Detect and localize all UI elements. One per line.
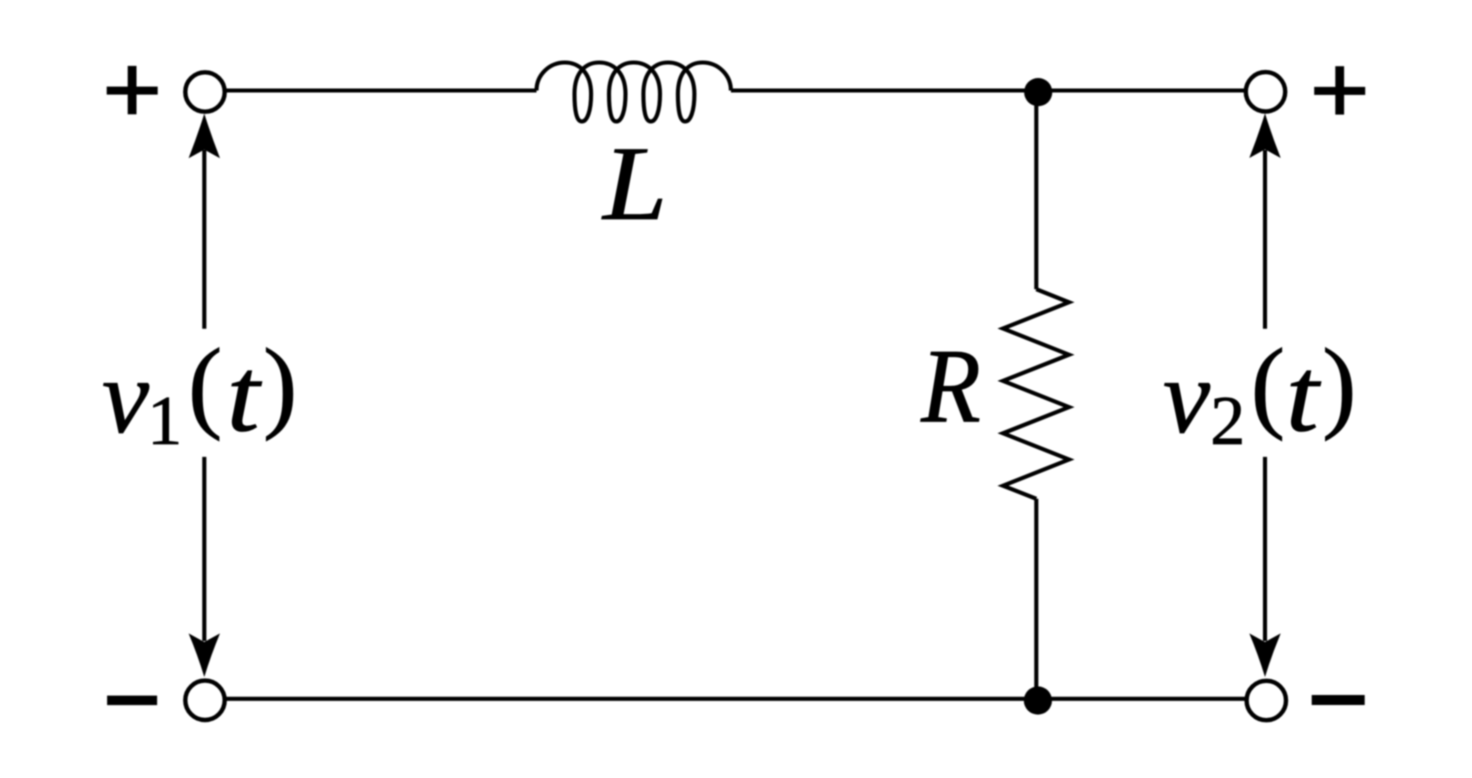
arrow v1 shaft lower bbox=[202, 457, 206, 641]
plus sign v1 bbox=[107, 66, 158, 114]
svg-text:): ) bbox=[1322, 328, 1356, 442]
arrow v2 head up bbox=[1249, 113, 1280, 158]
svg-text:v: v bbox=[1163, 338, 1211, 455]
minus sign v1 bbox=[107, 696, 157, 706]
arrow v1 head down bbox=[189, 633, 220, 677]
wire resistor bottom lead bbox=[1034, 499, 1038, 699]
node bottom junction bbox=[1024, 686, 1052, 714]
terminal bottom-left (port 1 -) bbox=[185, 681, 224, 720]
svg-text:): ) bbox=[263, 328, 297, 442]
svg-text:v: v bbox=[102, 338, 150, 455]
minus sign v2 bbox=[1312, 695, 1365, 705]
node top junction bbox=[1024, 78, 1052, 106]
svg-text:t: t bbox=[1286, 337, 1322, 454]
terminal top-right (port 2 +) bbox=[1246, 72, 1285, 111]
arrow v2 shaft upper bbox=[1263, 150, 1267, 329]
svg-text:1: 1 bbox=[147, 383, 182, 460]
svg-text:L: L bbox=[601, 125, 668, 242]
wire inductor to top junction bbox=[731, 88, 1244, 92]
wire top-left segment bbox=[226, 88, 537, 92]
svg-text:(: ( bbox=[188, 328, 222, 442]
svg-text:(: ( bbox=[1251, 328, 1285, 442]
plus sign v2 bbox=[1314, 66, 1365, 114]
arrow v1 shaft upper bbox=[202, 150, 206, 329]
svg-text:2: 2 bbox=[1210, 383, 1245, 460]
arrow v2 head down bbox=[1249, 633, 1280, 677]
wire resistor top lead bbox=[1034, 91, 1038, 290]
resistor R zigzag bbox=[1003, 289, 1069, 499]
svg-text:t: t bbox=[227, 337, 263, 454]
inductor L coil bbox=[537, 63, 731, 122]
terminal top-left (port 1 +) bbox=[185, 72, 224, 111]
svg-text:R: R bbox=[920, 328, 981, 445]
wire bottom segment bbox=[226, 697, 1245, 701]
arrow v1 head up bbox=[189, 114, 220, 159]
terminal bottom-right (port 2 -) bbox=[1247, 681, 1286, 720]
arrow v2 shaft lower bbox=[1263, 457, 1267, 641]
